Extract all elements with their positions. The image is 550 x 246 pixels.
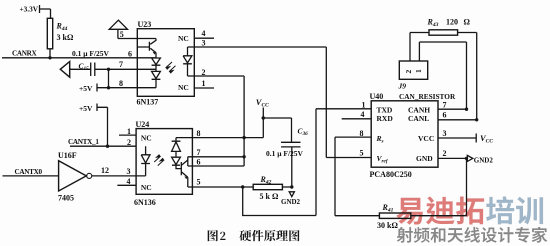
label 6N136 (134, 198, 156, 207)
wire U23 pin4 NC stub (194, 37, 214, 39)
transistor inside U23 (137, 39, 156, 58)
wire pin7 inside U23 (137, 68, 156, 70)
wire U40 pin5 Vref (326, 157, 371, 159)
inverter U16F 7405 (59, 161, 92, 191)
pin 12 (101, 166, 109, 175)
svg-text:5 k Ω: 5 k Ω (260, 192, 279, 201)
resistor R44 (47, 18, 52, 58)
label CAN_RESISTOR (399, 92, 456, 101)
label 0.1uF/25V C36 (266, 149, 304, 158)
caption 图2 硬件原理图 (208, 230, 300, 242)
svg-text:+3.3V: +3.3V (20, 5, 39, 14)
connector arrow (off-page, CANRX) (60, 62, 69, 78)
labels NC U23 (178, 34, 189, 92)
wire CANTX_1 (70, 145, 136, 147)
label +5V upper (79, 84, 93, 93)
wire pin5 into U23 (118, 38, 156, 40)
wire CANL pin6 (438, 118, 478, 121)
label PCA80C250 (370, 170, 412, 179)
power +5V (upper) (97, 84, 137, 92)
label CANRX (12, 49, 38, 57)
svg-text:U23: U23 (138, 20, 152, 29)
wire CANTX0 input (3, 175, 59, 177)
label J9 pins (404, 69, 423, 74)
watermark 射频和天线设计专家 (gray) (397, 227, 548, 243)
svg-text:CANTX_1: CANTX_1 (68, 138, 99, 146)
wire VCC pin3 + power Vcc tick (438, 134, 476, 143)
wire U40 pin8 Rs to R41 (335, 137, 371, 216)
svg-text:NC: NC (141, 183, 152, 192)
svg-text:6N137: 6N137 (137, 98, 159, 107)
svg-text:1: 1 (414, 69, 423, 73)
svg-text:U24: U24 (136, 120, 150, 129)
node pin7 junction (107, 68, 110, 90)
svg-text:2: 2 (127, 138, 131, 147)
label 7405 (58, 193, 74, 202)
capacitor C36 (281, 142, 301, 188)
opto light arrows U23 (166, 62, 176, 73)
pins 1 4 8 5 U40 (360, 101, 366, 158)
svg-text:NC: NC (141, 134, 152, 143)
svg-text:GND: GND (416, 154, 433, 163)
svg-text:7405: 7405 (58, 193, 74, 202)
svg-text:6: 6 (443, 111, 447, 120)
wire U24 pin5 to R42 (192, 185, 253, 188)
op-amp U24 box (optocoupler 6N136) (136, 129, 192, 195)
pin 8 (119, 79, 123, 88)
svg-text:+5V: +5V (79, 104, 93, 113)
svg-text:6N136: 6N136 (134, 198, 156, 207)
ground GND2 (middle) (289, 192, 294, 197)
capacitor C15 (70, 63, 138, 77)
label R42 5k (260, 175, 279, 201)
svg-text:CANTX0: CANTX0 (15, 168, 43, 176)
svg-text:3: 3 (443, 129, 447, 138)
svg-text:120: 120 (446, 17, 458, 26)
svg-text:GND2: GND2 (474, 156, 494, 164)
labels CANH CANL VCC GND (408, 105, 434, 163)
wire U40 pin4 RXD stub (342, 118, 372, 120)
svg-text:2: 2 (202, 68, 206, 77)
transistor inside U24 (181, 157, 192, 187)
svg-text:+5V: +5V (79, 84, 93, 93)
power +3.3V rail (40, 5, 51, 18)
wire pin8 inside U23 (137, 87, 156, 89)
op-amp U23 box (optocoupler 6N137) (137, 29, 194, 97)
wire U23 pin3 to vertical (188, 47, 327, 158)
label R44 3k (56, 22, 74, 43)
resistor R41 (335, 213, 467, 218)
wire U24 pin6 (192, 165, 244, 167)
label Vcc middle (256, 97, 269, 109)
label U40 (370, 92, 384, 101)
watermark 培训 (light blue) (486, 196, 543, 224)
label Vcc right (480, 133, 493, 145)
svg-text:1: 1 (202, 79, 206, 88)
wire U24 pin8 to Vcc (192, 136, 263, 139)
wire U24 pin7 (192, 155, 245, 158)
label CANTX0 (15, 168, 43, 176)
IC U40 box PCA80C250 (371, 101, 438, 167)
pin 7 (119, 60, 123, 69)
svg-text:0.1 μ F/25V: 0.1 μ F/25V (72, 49, 110, 58)
wire inverter output pin12 to U24 pin3 (92, 175, 146, 177)
svg-text:PCA80C250: PCA80C250 (370, 170, 412, 179)
svg-text:NC: NC (178, 34, 189, 43)
svg-text:7: 7 (443, 101, 447, 110)
label U23 (138, 20, 152, 29)
pins 1 2 3 4 U24 (127, 127, 132, 186)
svg-text:J9: J9 (398, 82, 407, 91)
wire TXD loop (243, 109, 372, 216)
svg-text:CANRX: CANRX (12, 49, 38, 57)
svg-text:8: 8 (360, 129, 364, 138)
wire U23 pin2 to vertical (188, 76, 245, 166)
photodiode chain inside U24 (172, 138, 193, 169)
labels TXD RXD Rs Vref (376, 105, 394, 164)
label U16F (58, 151, 77, 160)
label R43 120 ohm (427, 17, 471, 28)
opto light arrows U24 (154, 155, 164, 166)
label U24 (136, 120, 150, 129)
diode D2 inside U23 (152, 71, 161, 87)
power triangle pin5 U23 (109, 20, 127, 38)
svg-text:U16F: U16F (58, 151, 77, 160)
svg-text:7: 7 (197, 148, 201, 157)
svg-text:Ω: Ω (464, 17, 471, 26)
watermark 易迪拓 (pink-red) (396, 197, 484, 225)
svg-text:4: 4 (361, 110, 365, 119)
label R41 30k (377, 203, 398, 230)
svg-text:7: 7 (119, 60, 123, 69)
svg-text:5: 5 (197, 178, 201, 187)
label CANTX_1 (68, 138, 99, 146)
resistor R43 (410, 30, 477, 120)
svg-text:6: 6 (128, 50, 132, 59)
svg-text:1: 1 (127, 127, 131, 136)
svg-text:CANL: CANL (408, 114, 429, 123)
svg-text:5: 5 (120, 30, 124, 39)
power +5V (lower) (97, 104, 109, 148)
label GND2 right (474, 156, 494, 164)
pins 4 3 2 1 U23 (202, 29, 206, 88)
label GND2 middle (281, 198, 301, 206)
label C15 (79, 61, 90, 72)
pins 8 7 6 5 U24 (197, 129, 201, 187)
wire CANH pin7 (438, 108, 468, 111)
svg-text:CAN_RESISTOR: CAN_RESISTOR (399, 92, 456, 101)
svg-text:4: 4 (202, 29, 206, 38)
svg-text:4: 4 (127, 177, 131, 186)
svg-text:RXD: RXD (377, 114, 394, 123)
wire GND pin2 + ground GND2 arrow (438, 155, 473, 215)
svg-text:8: 8 (119, 79, 123, 88)
LED inside U24 (141, 146, 150, 176)
svg-text:3 kΩ: 3 kΩ (57, 33, 74, 42)
labels NC U24 (141, 134, 152, 193)
svg-text:0.1 μ F/25V: 0.1 μ F/25V (266, 149, 304, 158)
svg-text:2: 2 (404, 70, 413, 74)
label 0.1uF/25V (72, 49, 132, 59)
pins 7 6 3 2 U40 (443, 101, 447, 159)
power Vcc (middle) (262, 108, 292, 143)
svg-text:VCC: VCC (418, 134, 434, 143)
label C36 (298, 127, 309, 138)
diode D1 inside U23 (152, 58, 161, 71)
svg-text:NC: NC (178, 83, 189, 92)
svg-text:1: 1 (362, 101, 366, 110)
label +5V lower (79, 104, 93, 113)
wire U24 pin4 NC stub (117, 184, 136, 186)
label +3.3V (20, 5, 39, 14)
svg-text:U40: U40 (370, 92, 384, 101)
svg-text:30 kΩ: 30 kΩ (377, 221, 398, 230)
label J9 (398, 82, 407, 91)
svg-text:5: 5 (360, 149, 364, 158)
svg-text:2: 2 (443, 149, 447, 158)
svg-text:8: 8 (197, 129, 201, 138)
wire pin6 inside U23 (137, 57, 156, 59)
connector J9 jumper (399, 42, 466, 109)
wire U23 pin1 NC stub (194, 87, 214, 89)
svg-text:12: 12 (101, 166, 109, 175)
svg-text:3: 3 (127, 167, 131, 176)
svg-text:3: 3 (202, 39, 206, 48)
resistor R42 (253, 184, 292, 189)
label 6N137 (137, 98, 159, 107)
pin 5 triangle (120, 30, 124, 39)
svg-text:GND2: GND2 (281, 198, 301, 206)
wire CANRX (2, 56, 137, 59)
svg-text:6: 6 (197, 157, 201, 166)
wire U24 pin1 NC stub (119, 134, 136, 136)
LED inside U23 (183, 47, 192, 76)
